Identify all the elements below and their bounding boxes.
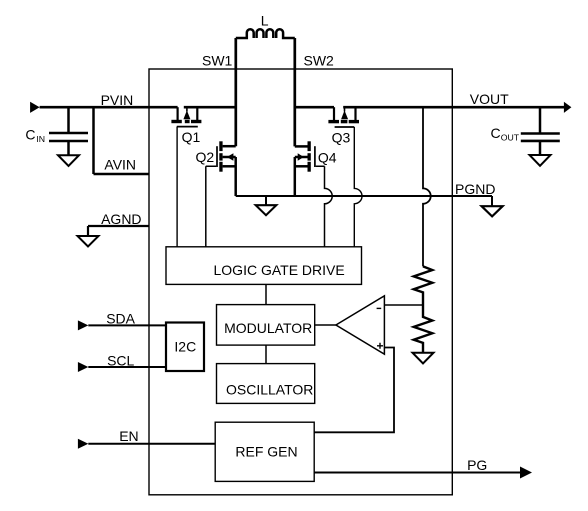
wire logic to modulator — [265, 284, 267, 304]
wire PVIN to AVIN vertical — [92, 107, 95, 174]
svg-text:SW1: SW1 — [202, 52, 233, 68]
transistor Q4 — [295, 141, 315, 171]
svg-text:VOUT: VOUT — [470, 91, 509, 107]
input arrow EN — [78, 439, 88, 449]
svg-text:C: C — [491, 125, 501, 141]
svg-text:PVIN: PVIN — [101, 92, 134, 108]
label SDA — [106, 310, 135, 326]
capacitor CIN plates — [49, 133, 88, 141]
ground AGND — [78, 236, 99, 247]
output arrow PG — [520, 467, 532, 479]
svg-text:EN: EN — [119, 428, 138, 444]
svg-text:I2C: I2C — [174, 339, 196, 355]
wire Q4 gate lead with hop over PGND — [316, 166, 333, 247]
output arrow VOUT — [564, 102, 572, 113]
svg-text:Q2: Q2 — [196, 149, 215, 165]
wire PGND bus — [236, 195, 492, 197]
node SW1 vertical wire — [234, 38, 237, 146]
ground middle below bus — [256, 196, 277, 215]
comparator minus sign — [377, 307, 382, 309]
svg-text:Q1: Q1 — [182, 129, 201, 145]
wire PG — [314, 472, 521, 474]
label PG — [467, 457, 487, 473]
wire AGND — [88, 226, 149, 236]
label EN — [119, 428, 138, 444]
input arrow SDA — [78, 320, 88, 330]
svg-text:LOGIC GATE DRIVE: LOGIC GATE DRIVE — [214, 262, 345, 278]
label AGND — [101, 211, 141, 227]
label Q3 — [332, 129, 351, 145]
label Q2 — [196, 149, 215, 165]
svg-text:SDA: SDA — [106, 310, 135, 326]
capacitor CIN bottom stub — [67, 141, 70, 155]
svg-text:Q3: Q3 — [332, 129, 351, 145]
svg-text:C: C — [25, 126, 35, 142]
svg-text:Q4: Q4 — [318, 149, 337, 165]
svg-text:AGND: AGND — [101, 211, 141, 227]
block LOGIC GATE DRIVE — [166, 247, 362, 285]
svg-text:SW2: SW2 — [304, 52, 335, 68]
svg-text:L: L — [261, 13, 269, 29]
node SW2 vertical wire — [293, 38, 296, 146]
input arrow PVIN — [30, 102, 39, 113]
label SCL — [107, 352, 134, 368]
label CIN — [25, 126, 45, 144]
wire SCL — [88, 366, 166, 368]
block MODULATOR — [217, 305, 315, 346]
wire SDA — [88, 324, 166, 326]
label SW1 — [202, 52, 233, 68]
transistor Q1 — [171, 107, 235, 126]
svg-text:SCL: SCL — [107, 352, 134, 368]
input arrow SCL — [78, 362, 88, 372]
label Q4 — [318, 149, 337, 165]
svg-text:OUT: OUT — [501, 133, 520, 143]
label COUT — [491, 125, 520, 143]
IC boundary box — [149, 69, 452, 495]
wire Q4 body to PGND bus — [294, 157, 297, 196]
svg-text:IN: IN — [36, 134, 45, 144]
block REF GEN — [215, 422, 314, 481]
svg-text:AVIN: AVIN — [104, 157, 136, 173]
svg-text:OSCILLATOR: OSCILLATOR — [226, 382, 313, 398]
wire VOUT — [295, 106, 565, 109]
wire EN — [88, 443, 215, 445]
wire modulator to oscillator — [265, 345, 267, 364]
svg-text:REF GEN: REF GEN — [235, 444, 297, 460]
op-amp comparator U1 — [336, 296, 385, 354]
wire comparator output to modulator — [315, 324, 336, 326]
svg-text:PGND: PGND — [455, 181, 495, 197]
wire Q2 gate lead — [206, 166, 216, 247]
label PVIN — [101, 92, 134, 108]
wire AVIN — [94, 173, 150, 176]
block OSCILLATOR — [217, 364, 315, 404]
ground below CIN — [58, 155, 79, 166]
ground below R2 — [413, 353, 434, 364]
wire divider node to comparator minus — [384, 304, 423, 306]
label L — [261, 13, 269, 29]
wire feedback VOUT to divider with hop over PGND — [423, 107, 431, 266]
label AVIN — [104, 157, 136, 173]
label VOUT — [470, 91, 509, 107]
ground below COUT — [530, 155, 551, 166]
resistor R1 — [414, 266, 433, 305]
wire Q1 gate to logic — [176, 127, 178, 247]
wire Q2 body to PGND bus — [234, 157, 237, 196]
transistor Q3 — [328, 107, 359, 127]
label SW2 — [304, 52, 335, 68]
wire PVIN — [40, 106, 178, 109]
ground PGND right — [482, 196, 503, 216]
block I2C — [166, 323, 204, 372]
label Q1 — [182, 129, 201, 145]
inductor L — [236, 29, 295, 38]
transistor Q2 — [217, 141, 236, 171]
capacitor COUT bottom stub — [539, 141, 542, 155]
capacitor COUT top stub — [539, 107, 542, 133]
wire comparator plus input from REF GEN — [314, 348, 394, 433]
capacitor CIN top stub — [67, 107, 70, 133]
capacitor COUT plates — [521, 134, 560, 141]
resistor R2 — [414, 305, 433, 353]
svg-text:MODULATOR: MODULATOR — [224, 320, 312, 336]
label PGND — [455, 181, 495, 197]
comparator plus sign — [377, 343, 383, 349]
svg-text:PG: PG — [467, 457, 487, 473]
wire Q3 gate to logic with hop over PGND — [354, 127, 362, 247]
